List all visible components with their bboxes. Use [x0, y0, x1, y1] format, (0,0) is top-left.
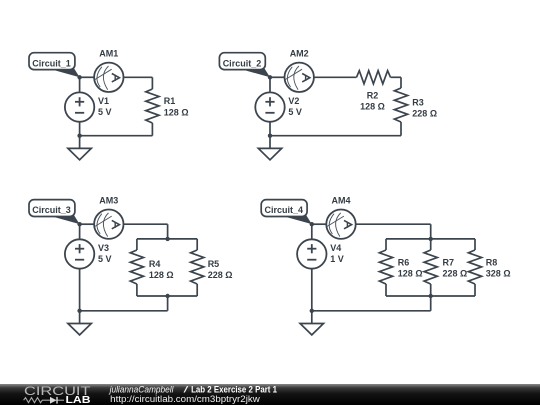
svg-text:AM1: AM1 — [99, 49, 118, 59]
svg-text:328 Ω: 328 Ω — [486, 269, 511, 279]
svg-text:128 Ω: 128 Ω — [164, 107, 189, 117]
svg-text:228 Ω: 228 Ω — [208, 270, 233, 280]
svg-text:Circuit_1: Circuit_1 — [32, 58, 71, 68]
svg-text:AM2: AM2 — [290, 49, 309, 59]
svg-text:R6: R6 — [398, 258, 410, 268]
svg-text:http://circuitlab.com/cm3bptry: http://circuitlab.com/cm3bptryr2jkw — [110, 394, 260, 404]
svg-text:5 V: 5 V — [98, 107, 112, 117]
svg-text:128 Ω: 128 Ω — [360, 101, 385, 111]
svg-text:R4: R4 — [149, 259, 161, 269]
svg-text:R3: R3 — [412, 97, 424, 107]
svg-text:LAB: LAB — [66, 395, 91, 405]
svg-text:AM4: AM4 — [332, 196, 351, 206]
svg-text:V1: V1 — [98, 96, 109, 106]
svg-text:juliannaCampbell: juliannaCampbell — [109, 384, 175, 394]
svg-text:Circuit_2: Circuit_2 — [223, 58, 262, 68]
svg-text:V2: V2 — [288, 96, 299, 106]
svg-text:V4: V4 — [330, 243, 341, 253]
svg-text:128 Ω: 128 Ω — [149, 270, 174, 280]
svg-text:R8: R8 — [486, 258, 498, 268]
svg-text:5 V: 5 V — [288, 107, 302, 117]
svg-text:AM3: AM3 — [99, 196, 118, 206]
svg-text:5 V: 5 V — [98, 254, 112, 264]
svg-text:128 Ω: 128 Ω — [398, 269, 423, 279]
svg-text:228 Ω: 228 Ω — [412, 108, 437, 118]
svg-text:R5: R5 — [208, 259, 220, 269]
svg-text:Circuit_3: Circuit_3 — [32, 205, 71, 215]
svg-text:Lab 2 Exercise 2 Part 1: Lab 2 Exercise 2 Part 1 — [191, 384, 277, 394]
svg-text:1 V: 1 V — [330, 254, 344, 264]
svg-text:Circuit_4: Circuit_4 — [265, 205, 304, 215]
svg-text:R7: R7 — [443, 258, 455, 268]
svg-text:V3: V3 — [98, 243, 109, 253]
svg-text:R2: R2 — [367, 91, 379, 101]
svg-text:R1: R1 — [164, 96, 176, 106]
svg-text:228 Ω: 228 Ω — [443, 269, 468, 279]
